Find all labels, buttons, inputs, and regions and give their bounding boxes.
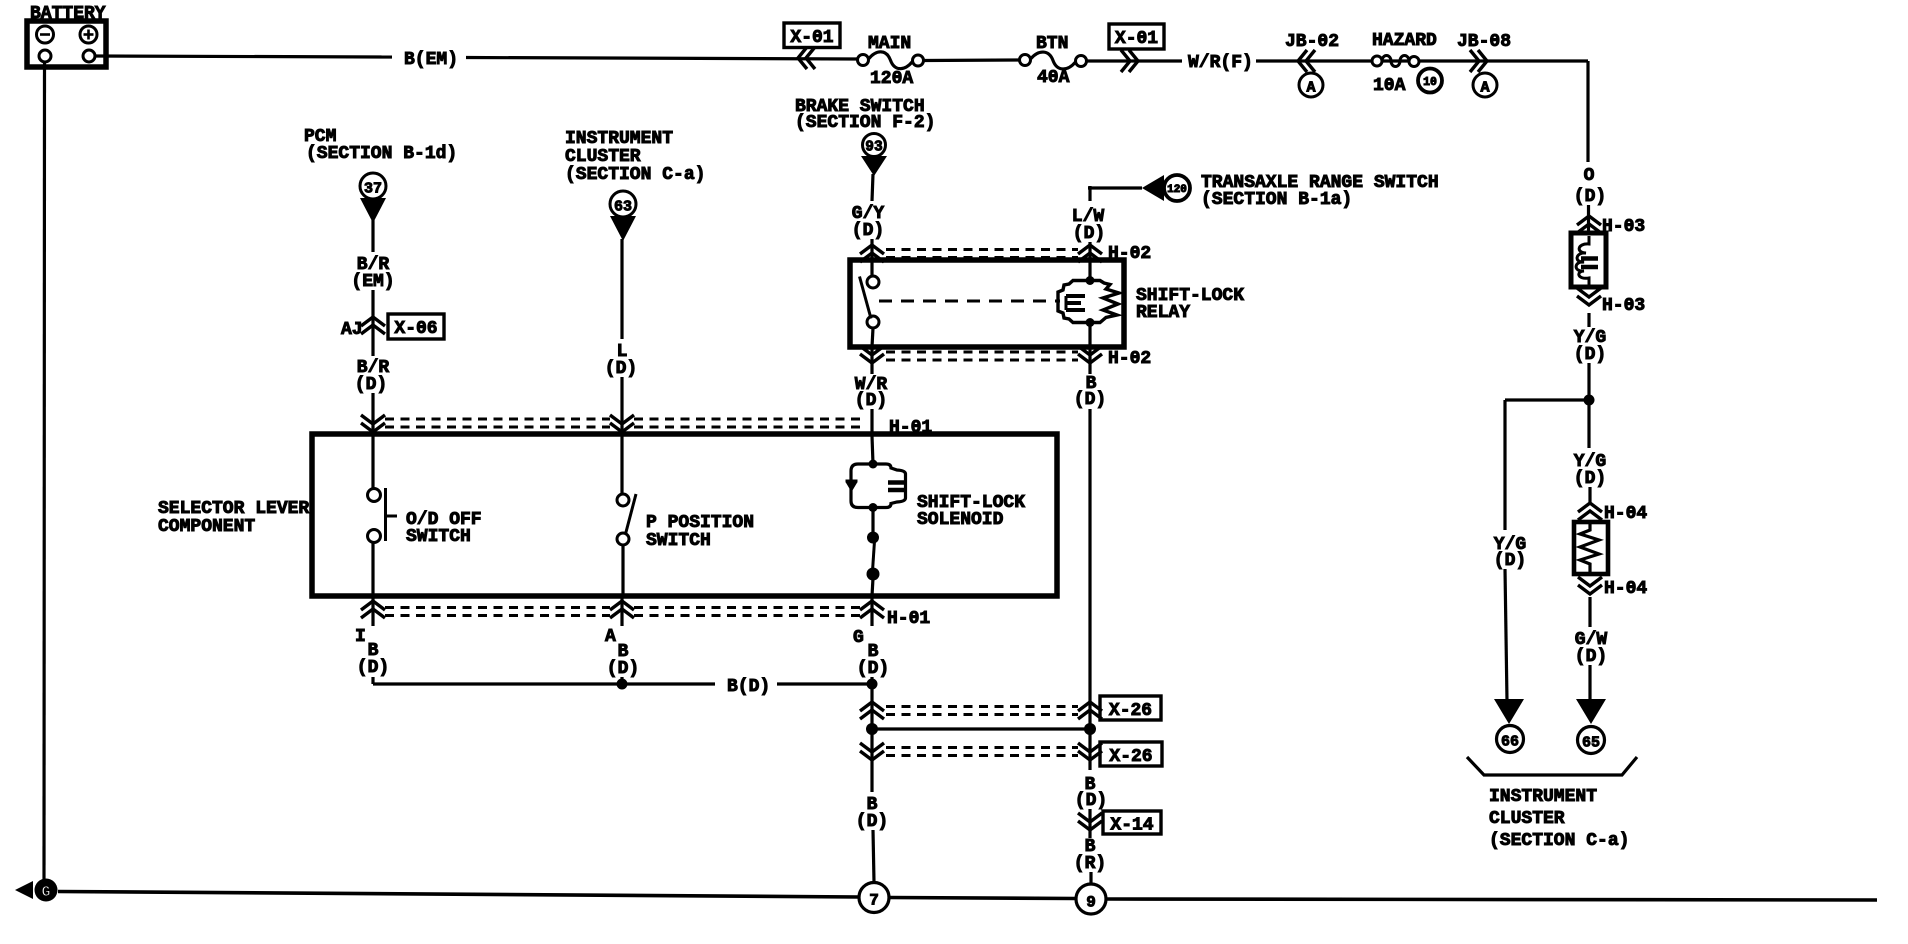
svg-text:CLUSTER: CLUSTER — [1489, 809, 1565, 829]
svg-text:X-01: X-01 — [790, 28, 833, 48]
svg-text:(SECTION B-1a): (SECTION B-1a) — [1201, 190, 1352, 210]
svg-text:(D): (D) — [852, 221, 884, 241]
svg-text:BTN: BTN — [1036, 34, 1068, 54]
svg-text:W/R(F): W/R(F) — [1188, 53, 1253, 73]
svg-text:H-01: H-01 — [887, 609, 930, 629]
svg-text:X-01: X-01 — [1115, 29, 1158, 49]
svg-text:A: A — [1480, 80, 1489, 97]
svg-text:X-14: X-14 — [1110, 816, 1153, 836]
svg-text:(D): (D) — [856, 812, 888, 832]
svg-text:120: 120 — [1167, 184, 1187, 196]
svg-text:65: 65 — [1582, 735, 1600, 752]
svg-text:37: 37 — [364, 181, 382, 198]
svg-text:CLUSTER: CLUSTER — [565, 147, 641, 167]
svg-text:H-03: H-03 — [1602, 296, 1645, 316]
svg-text:10: 10 — [1423, 76, 1437, 89]
svg-text:INSTRUMENT: INSTRUMENT — [1489, 787, 1597, 807]
svg-text:RELAY: RELAY — [1136, 303, 1190, 323]
svg-text:P POSITION: P POSITION — [646, 513, 754, 533]
svg-text:(D): (D) — [1073, 224, 1105, 244]
svg-text:(D): (D) — [1074, 390, 1106, 410]
svg-text:X-26: X-26 — [1109, 701, 1152, 721]
svg-text:G: G — [41, 884, 50, 901]
svg-text:(D): (D) — [855, 391, 887, 411]
svg-text:SWITCH: SWITCH — [646, 531, 711, 551]
svg-text:JB-08: JB-08 — [1457, 32, 1511, 52]
svg-text:66: 66 — [1501, 734, 1519, 751]
svg-text:10A: 10A — [1373, 76, 1406, 96]
svg-text:HAZARD: HAZARD — [1372, 31, 1437, 51]
svg-text:(EM): (EM) — [351, 272, 394, 292]
svg-text:(SECTION C-a): (SECTION C-a) — [1489, 831, 1629, 851]
svg-text:(D): (D) — [1494, 551, 1526, 571]
svg-text:(D): (D) — [605, 359, 637, 379]
svg-text:I: I — [355, 627, 366, 647]
svg-text:(D): (D) — [1574, 187, 1606, 207]
svg-text:63: 63 — [614, 199, 632, 216]
svg-text:(D): (D) — [357, 658, 389, 678]
svg-text:COMPONENT: COMPONENT — [158, 517, 255, 537]
svg-text:(D): (D) — [607, 659, 639, 679]
svg-text:120A: 120A — [870, 69, 913, 89]
svg-text:(D): (D) — [1574, 345, 1606, 365]
svg-text:H-02: H-02 — [1108, 349, 1151, 369]
svg-text:O: O — [1584, 166, 1595, 186]
svg-text:40A: 40A — [1037, 68, 1070, 88]
svg-text:X-06: X-06 — [394, 319, 437, 339]
svg-text:H-02: H-02 — [1108, 244, 1151, 264]
svg-text:9: 9 — [1086, 894, 1096, 912]
svg-text:MAIN: MAIN — [868, 34, 911, 54]
svg-text:INSTRUMENT: INSTRUMENT — [565, 129, 673, 149]
svg-text:A: A — [605, 627, 616, 647]
svg-text:(SECTION F-2): (SECTION F-2) — [795, 113, 935, 133]
svg-text:(D): (D) — [1575, 647, 1607, 667]
svg-text:A: A — [1306, 80, 1315, 97]
svg-text:B(D): B(D) — [727, 677, 770, 697]
svg-text:AJ: AJ — [341, 320, 363, 340]
svg-text:H-04: H-04 — [1604, 504, 1647, 524]
svg-text:93: 93 — [865, 140, 882, 156]
svg-text:SWITCH: SWITCH — [406, 527, 471, 547]
svg-text:(D): (D) — [1075, 791, 1107, 811]
svg-text:H-01: H-01 — [889, 418, 932, 438]
svg-text:(D): (D) — [355, 375, 387, 395]
svg-text:G: G — [853, 628, 864, 648]
svg-text:SELECTOR LEVER: SELECTOR LEVER — [158, 499, 309, 519]
svg-text:(D): (D) — [1574, 469, 1606, 489]
svg-text:7: 7 — [869, 892, 879, 910]
svg-text:(D): (D) — [857, 659, 889, 679]
svg-text:(SECTION C-a): (SECTION C-a) — [565, 165, 705, 185]
svg-text:(R): (R) — [1074, 854, 1106, 874]
svg-text:H-04: H-04 — [1604, 579, 1647, 599]
svg-text:(SECTION B-1d): (SECTION B-1d) — [306, 144, 457, 164]
svg-text:SOLENOID: SOLENOID — [917, 510, 1004, 530]
svg-text:X-26: X-26 — [1109, 747, 1152, 767]
svg-text:B(EM): B(EM) — [404, 50, 458, 70]
svg-text:JB-02: JB-02 — [1285, 32, 1339, 52]
